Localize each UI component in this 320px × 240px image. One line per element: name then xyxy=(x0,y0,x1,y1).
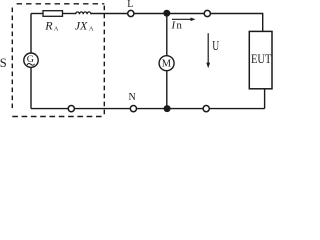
svg-text:A: A xyxy=(89,25,94,32)
svg-text:N: N xyxy=(129,92,136,103)
svg-text:n: n xyxy=(176,20,182,32)
svg-text:M: M xyxy=(162,59,172,70)
svg-text:U: U xyxy=(212,38,219,53)
svg-text:L: L xyxy=(127,0,133,10)
svg-text:JX: JX xyxy=(75,18,88,32)
svg-text:S: S xyxy=(0,56,7,70)
svg-text:A: A xyxy=(54,25,59,32)
svg-text:R: R xyxy=(44,18,53,32)
svg-text:EUT: EUT xyxy=(251,52,272,66)
